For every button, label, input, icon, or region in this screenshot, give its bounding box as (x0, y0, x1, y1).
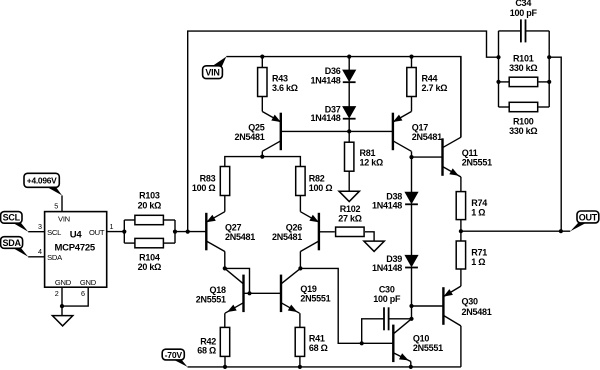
svg-text:2N5481: 2N5481 (462, 307, 492, 317)
diode D36 (343, 70, 356, 81)
svg-text:1N4148: 1N4148 (372, 263, 402, 273)
wire R71 to Q30 emitter (460, 269, 462, 286)
transistor Q18 (242, 275, 244, 313)
svg-text:SCL: SCL (3, 213, 21, 223)
wire C34/R101/R100 left branch (498, 31, 500, 107)
svg-text:2N5481: 2N5481 (234, 132, 264, 142)
svg-text:R81: R81 (360, 148, 376, 158)
wire R41 to rail (299, 356, 301, 367)
wire R44 to Q17 emitter (411, 97, 413, 112)
wire R103/R104 left bracket (123, 220, 125, 243)
diode D39 (405, 255, 418, 266)
svg-text:68 Ω: 68 Ω (309, 343, 328, 353)
net label -70V (173, 359, 188, 367)
resistor R104 (135, 238, 164, 247)
wire Q18-Q19 base row (244, 292, 282, 294)
ground R102 (364, 241, 384, 251)
svg-text:2N5481: 2N5481 (272, 232, 302, 242)
wire U4 OUT to R103/R104 (107, 231, 125, 233)
wire Q19 collector to Q10 base (300, 268, 393, 343)
svg-text:R41: R41 (309, 334, 325, 344)
wire R81 to ground (348, 171, 350, 191)
wire R101 left stub (499, 81, 509, 83)
resistor R41 (295, 327, 304, 356)
wire R43 to Q25 emitter (261, 97, 263, 112)
svg-text:SCL: SCL (47, 228, 61, 237)
svg-text:MCP4725: MCP4725 (54, 243, 95, 254)
svg-text:68 Ω: 68 Ω (197, 346, 216, 356)
wire Q11 base (412, 156, 443, 158)
transistor Q11 (441, 138, 443, 176)
node C30 right / Q10 collector (409, 317, 413, 321)
resistor R103 (135, 215, 164, 224)
wire C34 top right stub (525, 30, 549, 32)
svg-text:VIN: VIN (205, 68, 219, 78)
wire Q10 emitter to rail (410, 362, 412, 367)
svg-text:2N5481: 2N5481 (412, 132, 442, 142)
svg-text:2N5551: 2N5551 (300, 293, 330, 303)
node R103/R104 right (173, 230, 177, 234)
wire output row (461, 230, 570, 232)
resistor R81 (345, 142, 354, 171)
svg-text:R100: R100 (513, 117, 534, 127)
svg-text:R82: R82 (309, 173, 325, 183)
svg-text:R103: R103 (139, 190, 160, 200)
wire R100 left stub (499, 106, 509, 108)
resistor R101 (509, 77, 538, 86)
svg-text:Q27: Q27 (225, 223, 242, 233)
svg-text:SDA: SDA (47, 253, 63, 262)
wire R103 left stub (124, 219, 135, 221)
node output R74/R71 (459, 229, 463, 233)
svg-text:1 Ω: 1 Ω (471, 257, 485, 267)
svg-text:6: 6 (81, 289, 85, 298)
wire R100 right stub (538, 106, 549, 108)
wire R104 right stub (163, 242, 175, 244)
wire R103 right stub (163, 219, 175, 221)
wire combo to Q27 base (175, 231, 206, 233)
svg-text:100 pF: 100 pF (510, 8, 538, 18)
node rail R42 (223, 365, 227, 369)
wire R101 right stub (538, 81, 549, 83)
svg-text:Q10: Q10 (413, 334, 430, 344)
svg-text:Q17: Q17 (412, 122, 429, 132)
wire C34/R101/R100 right branch (548, 31, 550, 107)
svg-text:R101: R101 (513, 54, 534, 64)
svg-text:GND: GND (80, 278, 97, 287)
svg-text:2.7 kΩ: 2.7 kΩ (422, 83, 448, 93)
resistor R42 (220, 327, 229, 356)
wire D37 to base row (348, 119, 350, 132)
node Q17-Q11-D38 (409, 155, 413, 159)
svg-text:SDA: SDA (2, 238, 21, 248)
transistor Q17 (392, 113, 394, 151)
node output right rail (559, 229, 563, 233)
svg-text:2N5481: 2N5481 (225, 232, 255, 242)
ground U4 (52, 316, 72, 326)
net label OUT (570, 222, 587, 231)
svg-text:+4.096V: +4.096V (27, 176, 57, 186)
transistor Q10 (392, 325, 394, 363)
wire VIN row to R43 (261, 57, 263, 68)
wire R82 to Q26 emitter (299, 196, 301, 212)
svg-text:R102: R102 (340, 204, 361, 214)
wire SDA to U4 (28, 256, 44, 258)
wire D38 to D39 (411, 204, 413, 255)
wire SCL to U4 (28, 231, 44, 233)
svg-text:12 kΩ: 12 kΩ (360, 157, 384, 167)
wire R103/R104 right bracket (174, 220, 176, 243)
wire Q18 emitter to R42 (224, 313, 226, 327)
wire VIN input row (226, 57, 461, 138)
wire +4.096V to U4 VIN pin (61, 195, 63, 211)
node rail Q10 emitter (409, 365, 413, 369)
svg-text:3: 3 (38, 222, 42, 231)
svg-text:U4: U4 (70, 229, 83, 240)
wire Q11 collector to VIN row (460, 57, 462, 138)
svg-text:VIN: VIN (58, 215, 70, 224)
wire Q30 base (412, 305, 444, 307)
node C30 left bracket (360, 341, 364, 345)
node combo right top (547, 55, 551, 59)
svg-text:R43: R43 (272, 73, 288, 83)
svg-text:1 Ω: 1 Ω (471, 207, 485, 217)
node R103/R104 left (122, 230, 126, 234)
wire R42 to rail (224, 356, 226, 367)
net label SCL (12, 222, 28, 231)
svg-text:GND: GND (55, 278, 72, 287)
svg-text:C34: C34 (515, 0, 531, 8)
transistor Q25 (280, 113, 282, 151)
wire Q26 collector stub (299, 251, 301, 268)
wire Q30 collector to rail (460, 326, 462, 367)
wire Q25-Q17 base row (281, 130, 393, 132)
svg-text:20 kΩ: 20 kΩ (138, 200, 162, 210)
svg-text:2N5551: 2N5551 (413, 343, 443, 353)
node D39-Q30 base (409, 304, 413, 308)
resistor R100 (509, 102, 538, 111)
wire Q18 collector-base tie (225, 268, 250, 293)
node combo right R101 (547, 80, 551, 84)
svg-text:4: 4 (38, 247, 42, 256)
wire U4 GND pin 6 (62, 287, 88, 306)
wire -70V rail (188, 366, 461, 368)
svg-text:R83: R83 (200, 173, 216, 183)
node combo left top (496, 55, 500, 59)
svg-text:5: 5 (54, 202, 58, 211)
wire R74 to R71 (460, 220, 462, 241)
wire C30 left lead (362, 319, 384, 344)
wire Q25 collector row (225, 157, 301, 167)
wire R83 to Q27 emitter (224, 196, 226, 212)
svg-text:R104: R104 (139, 253, 160, 263)
resistor R74 (456, 192, 465, 220)
node VIN-R43 (260, 55, 264, 59)
svg-text:C30: C30 (379, 284, 395, 294)
node base row D37/R81 (347, 129, 351, 133)
svg-text:D36: D36 (325, 66, 341, 76)
wire VIN row to R44 (411, 57, 413, 68)
resistor R82 (296, 167, 305, 196)
op-amp U4 MCP4725 body (45, 212, 107, 288)
wire C34 top left stub (499, 30, 522, 32)
svg-text:1N4148: 1N4148 (372, 201, 402, 211)
wire Q19 emitter to R41 (299, 313, 301, 327)
wire Q25 collector stub (261, 151, 263, 156)
svg-text:3.6 kΩ: 3.6 kΩ (272, 83, 298, 93)
svg-text:Q25: Q25 (248, 122, 265, 132)
wire Q27 collector stub (224, 251, 226, 268)
svg-text:OUT: OUT (89, 228, 105, 237)
wire Q17 node to D38 (411, 157, 413, 192)
wire C30 right lead (389, 318, 412, 320)
diode D37 (343, 107, 356, 118)
transistor Q30 (442, 287, 444, 325)
svg-text:-70V: -70V (165, 350, 183, 360)
svg-text:1: 1 (110, 222, 114, 231)
svg-text:1N4148: 1N4148 (310, 113, 340, 123)
wire Q26 base to R102 (319, 231, 335, 233)
wire base row to R81 (348, 131, 350, 142)
node VIN-R44 (409, 55, 413, 59)
svg-text:100 pF: 100 pF (373, 294, 401, 304)
net label SDA (12, 248, 28, 257)
wire GND join to ground (61, 306, 63, 316)
resistor R43 (258, 68, 267, 97)
wire D36 to D37 (348, 83, 350, 107)
resistor R102 (336, 227, 365, 236)
ground R81 (339, 191, 359, 201)
svg-text:R44: R44 (422, 73, 438, 83)
node Q25 collector (260, 155, 264, 159)
svg-text:330 kΩ: 330 kΩ (509, 126, 537, 136)
node U4 GND join (60, 304, 64, 308)
svg-text:330 kΩ: 330 kΩ (509, 63, 537, 73)
wire R102 to ground (365, 232, 374, 241)
net label +4.096V (46, 187, 62, 196)
svg-text:OUT: OUT (579, 212, 598, 222)
transistor Q26 (318, 213, 320, 251)
node rail R41 (298, 365, 302, 369)
wire D39 to Q30 base node (411, 268, 413, 319)
node VIN-D36 (347, 55, 351, 59)
node combo left R101 (496, 80, 500, 84)
resistor R44 (407, 68, 416, 97)
svg-text:27 kΩ: 27 kΩ (338, 213, 362, 223)
wire top feedback rail (188, 31, 499, 232)
diode D38 (405, 192, 418, 203)
svg-text:100 Ω: 100 Ω (192, 183, 216, 193)
wire R104 left stub (124, 242, 135, 244)
wire Q17 collector stub (411, 151, 413, 157)
node feedback rail junction (186, 230, 190, 234)
svg-text:20 kΩ: 20 kΩ (138, 262, 162, 272)
svg-text:Q11: Q11 (462, 148, 478, 158)
wire U4 GND pin 2 (61, 287, 63, 306)
node Q18-Q19 base (247, 291, 251, 295)
node Q27-Q18 collectors (223, 266, 227, 270)
svg-text:2: 2 (55, 289, 59, 298)
svg-text:R71: R71 (471, 247, 487, 257)
svg-text:100 Ω: 100 Ω (309, 183, 333, 193)
svg-text:Q18: Q18 (210, 285, 227, 295)
net label VIN (212, 57, 227, 70)
wire right rail to output (549, 57, 561, 231)
svg-text:Q26: Q26 (286, 223, 303, 233)
resistor R71 (456, 241, 465, 269)
svg-text:R74: R74 (471, 198, 487, 208)
transistor Q19 (280, 275, 282, 313)
svg-text:Q30: Q30 (462, 297, 479, 307)
resistor R83 (220, 167, 229, 196)
capacitor C34 (520, 19, 522, 42)
capacitor C30 (383, 307, 385, 330)
svg-text:1N4148: 1N4148 (310, 75, 340, 85)
svg-text:2N5551: 2N5551 (196, 294, 226, 304)
node Q26-Q19 collectors (298, 266, 302, 270)
transistor Q27 (205, 213, 207, 251)
svg-text:2N5551: 2N5551 (462, 158, 492, 168)
wire VIN row to D36 (348, 57, 350, 70)
wire Q11 emitter to R74 (460, 177, 462, 192)
